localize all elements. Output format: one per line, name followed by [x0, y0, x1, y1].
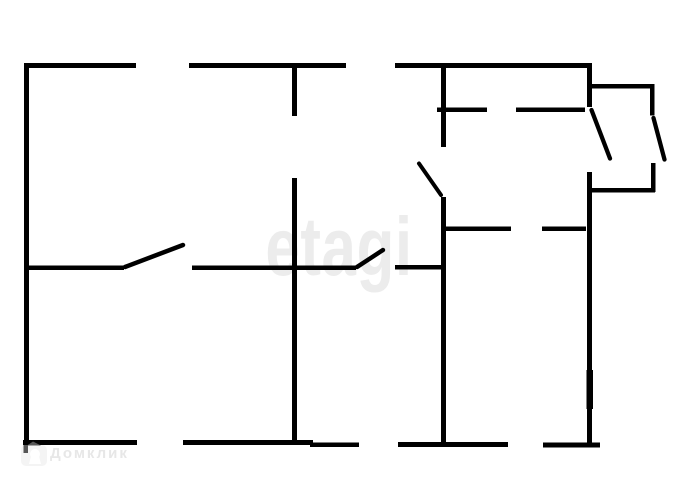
door swing room1	[125, 245, 183, 267]
wall outer right lower bulge	[587, 370, 594, 409]
wall interior upper horizontal segment B	[516, 108, 585, 113]
wall outer top segment B	[189, 63, 346, 68]
wall interior right horizontal segment A	[443, 227, 511, 232]
wall outer bottom segment B jog	[310, 443, 359, 448]
watermark etagi (center)	[265, 202, 412, 294]
wall interior central vertical upper	[292, 64, 297, 116]
balcony top wall	[591, 84, 654, 89]
door swing hall	[357, 250, 383, 267]
wall interior mid horizontal segment C	[395, 265, 445, 270]
wall interior right horizontal segment B	[542, 227, 586, 232]
corner artifact gray stub	[24, 445, 29, 453]
wall interior mid horizontal segment B	[192, 266, 356, 271]
door swing balcony left	[592, 110, 611, 159]
wall interior vertical x443 lower	[441, 197, 446, 444]
svg-text:etagi: etagi	[265, 202, 412, 294]
wall interior vertical x443 upper	[441, 64, 446, 147]
wall interior central vertical lower	[292, 178, 297, 444]
wall outer right upper	[587, 63, 592, 107]
balcony right upper wall	[650, 84, 655, 116]
wall interior mid horizontal segment A	[24, 266, 124, 271]
balcony bottom wall	[588, 188, 655, 193]
wall outer bottom segment C	[398, 442, 508, 447]
wall outer right lower	[587, 172, 592, 445]
watermark Domclick icon (bottom-left)	[21, 445, 47, 466]
svg-text:Домклик: Домклик	[50, 445, 129, 462]
wall outer left	[24, 63, 29, 445]
wall outer bottom segment B	[183, 440, 313, 445]
wall outer bottom segment A	[23, 440, 137, 445]
wall interior upper horizontal segment A	[437, 108, 487, 113]
wall outer top segment C	[395, 63, 591, 68]
door swing room2	[419, 164, 441, 196]
balcony right lower wall	[651, 163, 656, 192]
wall outer top segment A	[24, 63, 136, 68]
wall outer bottom segment D	[543, 443, 600, 448]
corner artifact gray triangle	[27, 442, 41, 446]
door swing balcony right	[654, 118, 665, 160]
